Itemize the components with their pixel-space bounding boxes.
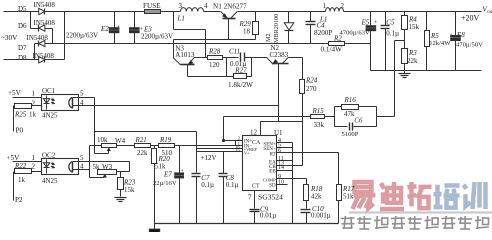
svg-text:8200P: 8200P — [314, 29, 332, 37]
resistor R5 — [425, 12, 452, 71]
wire feedback tap — [395, 40, 405, 42]
pin 7 wire CT — [254, 191, 256, 209]
svg-text:4700µ/63V: 4700µ/63V — [340, 29, 370, 36]
wire pin12 loop — [223, 117, 225, 141]
wire step from top rail — [173, 12, 175, 30]
wire pin bus to ground — [292, 143, 294, 224]
svg-text:+5V: +5V — [7, 154, 21, 162]
svg-text:0.1µ: 0.1µ — [201, 181, 214, 189]
pin 14 wire — [277, 170, 293, 172]
diode D5 — [18, 1, 55, 15]
capacitor C4 — [306, 12, 333, 44]
svg-text:2200µ/63V: 2200µ/63V — [66, 31, 98, 39]
wire error amp input line — [224, 116, 311, 118]
svg-text:COMP: COMP — [263, 177, 276, 182]
watermark logo text — [341, 182, 492, 229]
wire OC1 tap to divider — [95, 131, 197, 133]
svg-text:5: 5 — [80, 90, 84, 98]
wire OC2 pin4 to wiper bus — [79, 169, 90, 171]
svg-text:6: 6 — [278, 148, 281, 154]
svg-text:33k: 33k — [314, 121, 325, 129]
pin 1 wire IN- — [175, 145, 243, 147]
svg-text:42k: 42k — [311, 192, 322, 200]
capacitor C5 — [381, 12, 400, 71]
svg-text:12k/4W: 12k/4W — [429, 40, 451, 47]
capacitor C7 — [192, 174, 215, 224]
svg-text:L1: L1 — [177, 14, 185, 22]
transistor N3 A1013 — [174, 40, 195, 77]
svg-text:U1: U1 — [274, 129, 283, 137]
svg-text:SG3524: SG3524 — [258, 193, 283, 202]
svg-text:~30V: ~30V — [1, 34, 18, 42]
ground below R3 — [399, 71, 411, 78]
capacitor E3 — [130, 12, 174, 44]
ground below R23 — [115, 197, 127, 199]
resistor R28 — [208, 48, 223, 69]
wire ground rail — [155, 223, 339, 225]
svg-text:+: + — [374, 19, 378, 26]
wire OC1 pin4 long — [79, 105, 279, 107]
svg-text:51k: 51k — [343, 192, 354, 200]
wire input top — [4, 11, 39, 13]
wire OC2 pin5 to W3 — [79, 161, 130, 163]
svg-text:C11: C11 — [229, 47, 240, 55]
svg-text:R25: R25 — [14, 111, 27, 119]
svg-text:SEN−: SEN− — [263, 147, 275, 152]
transistor N1 2N6277 — [213, 2, 247, 39]
diode D6 — [18, 19, 55, 32]
resistor R29 — [239, 12, 259, 40]
svg-text:51k: 51k — [155, 163, 166, 171]
svg-text:2: 2 — [32, 99, 36, 107]
svg-text:4N25: 4N25 — [42, 177, 58, 185]
svg-text:120: 120 — [209, 61, 220, 69]
svg-text:R19: R19 — [159, 136, 172, 144]
svg-text:12: 12 — [250, 129, 258, 137]
svg-text:2: 2 — [32, 163, 36, 171]
svg-text:D6: D6 — [18, 22, 27, 30]
resistor R17 — [337, 153, 355, 224]
wire secondary lower rail — [371, 70, 482, 72]
pin 6 wire RT — [277, 152, 339, 154]
resistor R15 — [311, 107, 325, 129]
svg-text:C2383: C2383 — [270, 51, 289, 59]
wire AC1 junction — [30, 12, 32, 29]
resistor R27 — [188, 58, 254, 90]
svg-text:+20V: +20V — [461, 14, 480, 23]
svg-text:R3: R3 — [408, 49, 417, 57]
svg-text:IN5408: IN5408 — [27, 34, 49, 42]
svg-text:3: 3 — [179, 2, 183, 10]
pin 9 wire COMP — [277, 178, 307, 180]
svg-text:10k: 10k — [97, 136, 108, 144]
svg-text:+: + — [180, 168, 184, 175]
svg-text:5100P: 5100P — [342, 131, 359, 138]
pin 15 wire V+ — [197, 151, 243, 153]
svg-text:C5: C5 — [386, 19, 395, 27]
svg-text:M2: M2 — [265, 33, 272, 42]
pin 13 wire — [277, 165, 303, 167]
svg-text:1k: 1k — [18, 176, 26, 184]
svg-text:L1: L1 — [319, 15, 327, 23]
svg-text:2200µ/63V: 2200µ/63V — [141, 33, 173, 41]
resistor R2 — [321, 35, 345, 54]
svg-text:MBR20100: MBR20100 — [273, 14, 280, 43]
svg-text:R16: R16 — [344, 96, 357, 104]
svg-text:14: 14 — [278, 165, 284, 171]
svg-text:22µ/16V: 22µ/16V — [153, 180, 177, 187]
svg-text:22k: 22k — [407, 57, 418, 65]
svg-text:0.1/4W: 0.1/4W — [321, 46, 343, 54]
svg-text:D7: D7 — [18, 44, 27, 52]
resistor R16 with capacitor C6 parallel — [335, 96, 377, 138]
pin 16 wire VREF — [197, 148, 243, 150]
pin 1 wire +5V to OC2 — [13, 161, 42, 163]
svg-text:out: out — [487, 10, 492, 15]
wire R19 to IC — [175, 145, 243, 147]
pin 4 wire — [277, 142, 293, 144]
svg-text:FUSE: FUSE — [143, 2, 161, 10]
wire base drive line — [174, 39, 256, 41]
svg-text:0.01µ: 0.01µ — [260, 212, 276, 220]
svg-text:R5: R5 — [430, 32, 439, 40]
pin 10 wire SD — [277, 184, 288, 186]
svg-text:IN5408: IN5408 — [34, 19, 56, 27]
fuse FUSE — [143, 2, 161, 14]
wire pin12 stub — [260, 122, 262, 136]
svg-text:15: 15 — [235, 148, 240, 153]
inductor L1 primary — [177, 2, 209, 22]
svg-text:0.1µ: 0.1µ — [226, 181, 239, 189]
svg-text:R27: R27 — [234, 67, 247, 75]
wire input bottom — [4, 59, 39, 61]
svg-text:E7: E7 — [163, 171, 172, 179]
wire AC2 junction — [34, 44, 36, 60]
svg-text:4: 4 — [204, 2, 208, 10]
svg-text:N1 2N6277: N1 2N6277 — [213, 2, 247, 10]
svg-text:18: 18 — [243, 28, 251, 36]
svg-text:1: 1 — [323, 2, 327, 10]
diode D7 — [18, 34, 48, 52]
pin 5 wire — [277, 147, 293, 149]
svg-text:E5: E5 — [361, 19, 370, 27]
wire to RC box — [325, 116, 335, 118]
resistor R21 — [117, 136, 151, 157]
svg-text:D8: D8 — [18, 54, 27, 62]
svg-text:22k: 22k — [137, 149, 148, 157]
svg-text:IN5408: IN5408 — [33, 52, 55, 60]
resistor R19 — [151, 136, 175, 157]
capacitor E7 — [153, 146, 184, 224]
capacitor E5 — [340, 12, 378, 71]
capacitor C11 — [223, 47, 267, 68]
resistor R25 — [14, 104, 42, 119]
svg-text:2: 2 — [341, 2, 345, 10]
svg-text:A1013: A1013 — [175, 51, 195, 59]
svg-text:0.001µ: 0.001µ — [311, 212, 331, 220]
diode M2 MBR20100 — [265, 12, 294, 44]
svg-text:CT: CT — [252, 184, 260, 190]
svg-text:R24: R24 — [305, 77, 318, 85]
capacitor C10 — [301, 205, 331, 224]
resistor R3 — [402, 49, 419, 71]
inductor L1 secondary — [319, 2, 345, 23]
svg-text:10: 10 — [278, 180, 284, 186]
wire top rail — [45, 11, 145, 13]
svg-text:+5V: +5V — [8, 89, 22, 97]
capacitor C8 — [219, 152, 239, 224]
svg-text:15k: 15k — [409, 23, 420, 31]
svg-text:7: 7 — [248, 194, 252, 202]
resistor R20 — [152, 146, 171, 224]
pin 11 wire — [277, 160, 293, 162]
svg-text:+12V: +12V — [201, 154, 217, 162]
resistor R18 — [304, 179, 323, 209]
svg-text:470µ/50V: 470µ/50V — [456, 42, 483, 49]
svg-text:RT: RT — [270, 152, 276, 157]
potentiometer W4 10k — [95, 136, 126, 153]
svg-text:1k: 1k — [29, 111, 37, 119]
node P0 — [14, 106, 24, 135]
pin 2 wire IN+ — [224, 140, 243, 142]
op-amp U1 SG3524 — [243, 129, 284, 202]
svg-text:IN5408: IN5408 — [34, 1, 56, 9]
svg-text:CA: CA — [252, 140, 261, 146]
wire RC box to feedback — [377, 116, 395, 118]
svg-text:1: 1 — [32, 154, 36, 162]
resistor R23 — [118, 172, 136, 197]
capacitor E8 — [449, 12, 483, 71]
resistor R24 — [300, 58, 318, 166]
svg-text:+: + — [117, 24, 121, 31]
svg-text:V+: V+ — [244, 150, 250, 155]
wire positive junction — [45, 59, 65, 61]
svg-text:P2: P2 — [15, 196, 23, 204]
wire VREF junction — [196, 132, 198, 173]
svg-text:1: 1 — [32, 90, 36, 98]
pin 1 wire +5V to OC1 — [13, 97, 42, 99]
wire negative junction — [45, 28, 53, 30]
optocoupler OC1 4N25 — [8, 87, 84, 119]
optocoupler OC2 4N25 — [7, 152, 85, 185]
svg-text:270: 270 — [306, 85, 317, 93]
wire OC1 pin5 drop — [79, 97, 95, 99]
capacitor E2 — [66, 12, 121, 44]
wire N3 emitter node — [195, 57, 208, 59]
svg-text:5: 5 — [80, 154, 84, 162]
svg-text:15k: 15k — [124, 186, 135, 194]
svg-text:R21: R21 — [135, 136, 147, 144]
svg-text:1.8k/2W: 1.8k/2W — [228, 81, 253, 89]
svg-text:OC1: OC1 — [42, 87, 56, 95]
ground symbol at rail end — [149, 224, 159, 233]
svg-text:R28: R28 — [208, 48, 221, 56]
svg-text:P0: P0 — [16, 127, 24, 135]
svg-text:SD: SD — [269, 183, 276, 188]
svg-text:E8: E8 — [456, 31, 465, 39]
svg-text:EB: EB — [269, 169, 276, 174]
potentiometer W3 5k — [90, 163, 130, 178]
svg-text:+: + — [449, 32, 453, 39]
node P2 — [14, 172, 23, 205]
svg-text:4N25: 4N25 — [42, 112, 58, 120]
node Vout label — [461, 5, 492, 23]
wire W4 left leg — [90, 145, 102, 147]
transistor N2 C2383 — [266, 44, 302, 122]
diode D8 — [18, 52, 54, 63]
svg-text:C6: C6 — [354, 117, 363, 125]
wire R2 to E5 — [345, 43, 371, 45]
svg-text:0.1µ: 0.1µ — [386, 30, 399, 38]
resistor R4 — [402, 12, 420, 49]
resistor R22 — [14, 162, 42, 184]
svg-text:R15: R15 — [312, 107, 325, 115]
capacitor C9 — [250, 206, 277, 224]
svg-text:D5: D5 — [18, 5, 27, 13]
svg-text:E2: E2 — [100, 25, 109, 33]
wire mid rail — [45, 43, 329, 45]
